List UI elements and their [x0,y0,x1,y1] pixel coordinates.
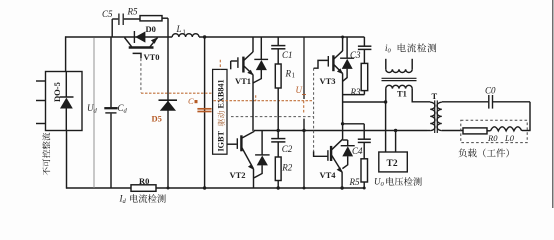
svg-text:T2: T2 [387,159,398,169]
svg-text:D0: D0 [146,24,156,34]
svg-text:VT1: VT1 [235,76,251,86]
svg-text:D5: D5 [152,114,162,124]
svg-text:C0: C0 [485,86,496,96]
svg-text:R0: R0 [487,133,498,143]
svg-text:C5: C5 [102,9,113,19]
svg-text:1: 1 [183,29,186,36]
svg-text:T: T [432,91,438,101]
svg-text:VT2: VT2 [230,170,246,180]
svg-text:IGBT: IGBT [216,130,225,151]
svg-text:C4: C4 [352,146,363,156]
svg-text:L: L [176,24,182,34]
svg-text:R0: R0 [139,176,149,186]
svg-text:R3: R3 [350,87,361,97]
svg-text:R: R [285,69,292,79]
svg-text:VT0: VT0 [144,52,160,62]
svg-text:U: U [296,85,303,95]
svg-text:C1: C1 [282,50,293,60]
svg-text:C3: C3 [350,50,361,60]
svg-text:T1: T1 [397,89,407,99]
svg-text:1: 1 [292,72,296,80]
svg-text:VT3: VT3 [320,76,336,86]
svg-text:C2: C2 [282,144,293,154]
svg-text:L0: L0 [504,133,515,143]
svg-text:EXB841: EXB841 [216,79,225,108]
svg-text:R5: R5 [349,177,360,187]
svg-text:DO-5: DO-5 [52,82,62,102]
svg-text:C: C [188,96,194,106]
svg-text:R2: R2 [281,163,292,173]
svg-text:R5: R5 [127,7,138,17]
svg-text:VT4: VT4 [320,170,337,180]
